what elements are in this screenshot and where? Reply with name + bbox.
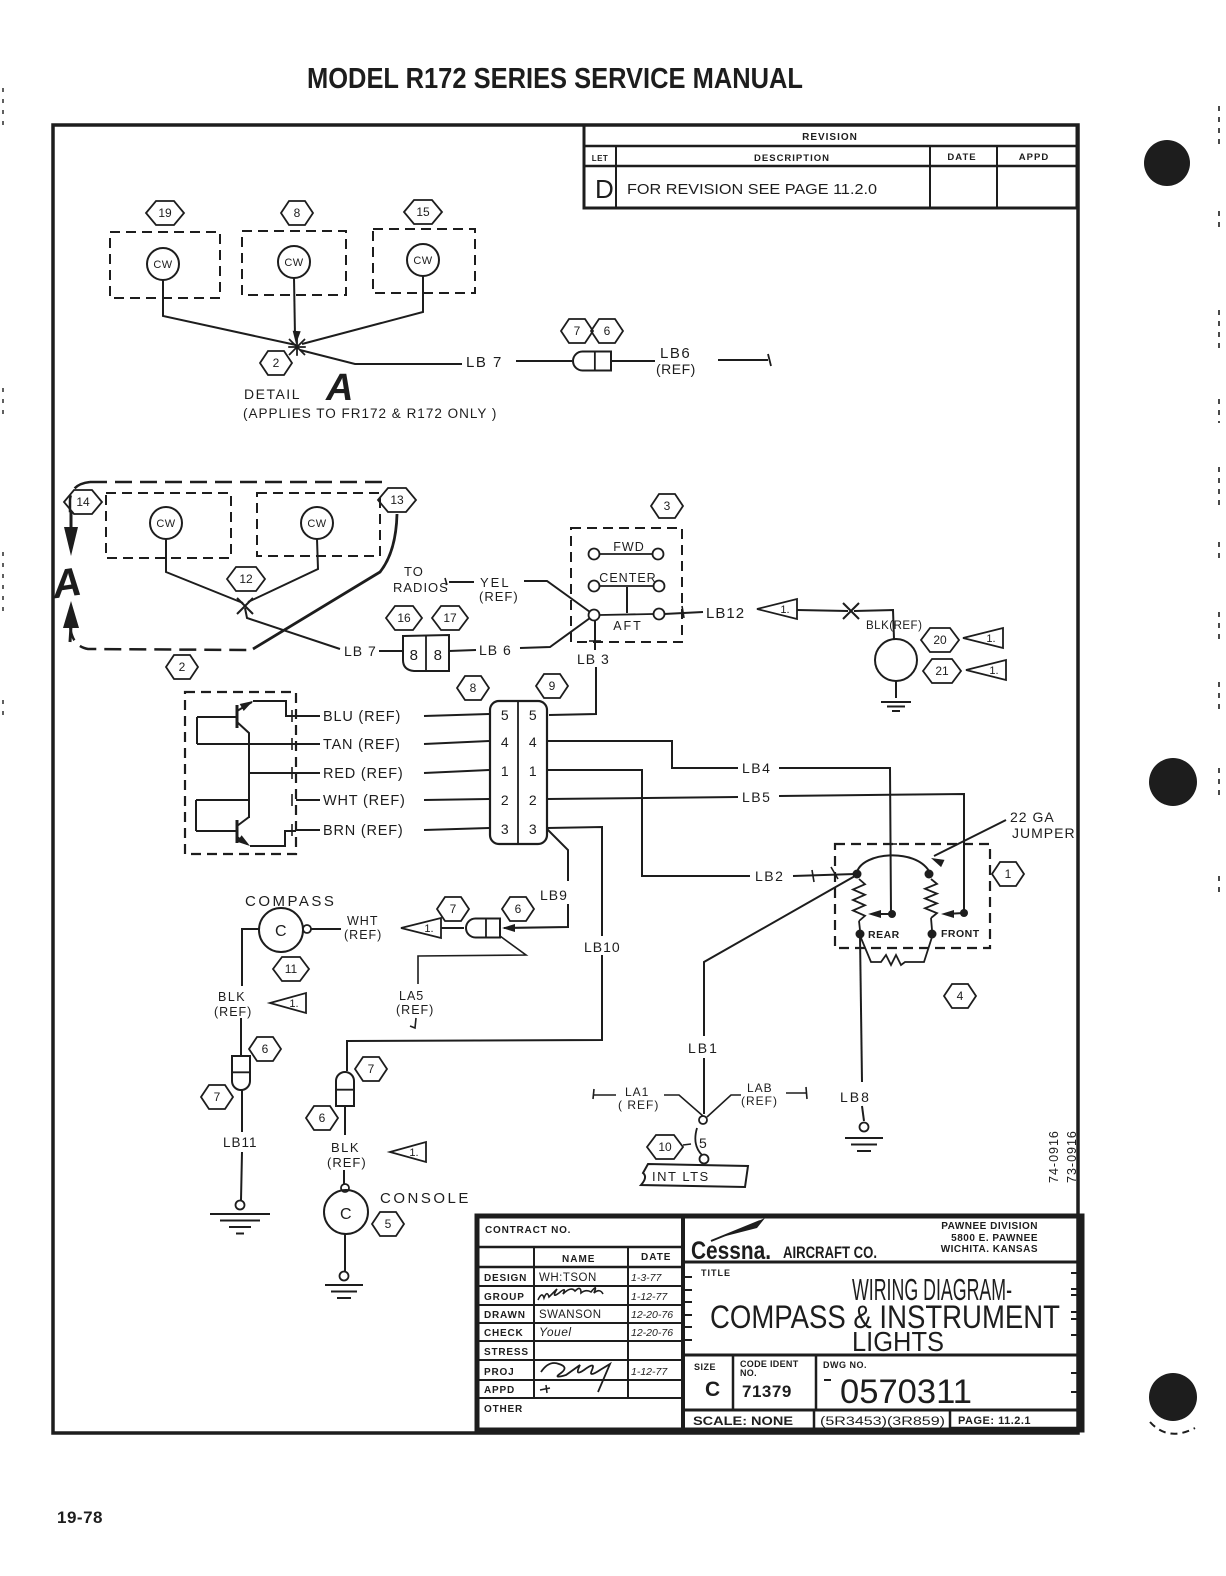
svg-text:17: 17 [443,611,457,625]
dimmer assembly box [185,692,296,854]
LA1 (REF) stub [593,1085,703,1116]
INT LTS banner [641,1164,748,1187]
wire console connector down [344,1105,346,1135]
svg-text:12-20-76: 12-20-76 [631,1327,673,1339]
svg-text:FWD: FWD [613,540,644,554]
drawing title [683,1268,1082,1357]
callout hex 1 [992,862,1024,886]
wire label BLK (REF) (compass) [214,990,252,1019]
svg-text:LB 7: LB 7 [466,354,503,371]
svg-text:5: 5 [385,1217,392,1231]
wire LB7 to connector (detail A) [516,360,572,362]
lamp CW2 (detail A) [278,246,310,278]
callout hex 10 [647,1135,683,1159]
svg-text:Youel: Youel [539,1325,572,1339]
wire splice to LB7 (detail A) [300,350,462,364]
callout hex 8 [457,676,489,700]
jumper arc [857,855,929,872]
svg-text:DATE: DATE [947,152,976,163]
svg-text:BLK: BLK [218,990,246,1004]
callout triangle 1 (compass BLK) [270,993,306,1013]
wire LA5 [396,936,526,1028]
svg-text:DATE: DATE [641,1252,671,1263]
svg-text:CW: CW [307,518,326,530]
svg-text:7: 7 [214,1090,221,1104]
compass lamp [259,908,311,952]
svg-text:TITLE: TITLE [701,1268,731,1278]
callout hex 5 [372,1212,404,1236]
svg-text:STRESS: STRESS [484,1347,529,1358]
flow arrow up (left edge) [63,601,79,642]
wire label YEL (REF) [479,575,519,604]
callout hex 6 [249,1037,281,1061]
revision block [584,125,1077,208]
svg-text:1.: 1. [409,1147,418,1159]
instrument lamp box 3 (detail A) [373,229,475,293]
svg-text:(REF): (REF) [214,1005,252,1019]
svg-text:WHT: WHT [347,914,378,928]
svg-text:74-0916: 74-0916 [1047,1130,1061,1183]
svg-text:(REF): (REF) [741,1094,778,1108]
svg-text:5: 5 [699,1135,707,1151]
callout hex 17 [432,606,468,630]
svg-text:7: 7 [368,1062,375,1076]
svg-text:LB9: LB9 [540,887,568,903]
ground lines (LB8) [845,1138,883,1151]
svg-text:LB12: LB12 [706,605,745,622]
svg-text:5: 5 [501,707,509,723]
svg-text:7: 7 [574,324,581,338]
svg-text:( REF): ( REF) [618,1098,659,1112]
wire BLU (REF) [292,709,489,725]
svg-text:DRAWN: DRAWN [484,1310,526,1321]
svg-text:3: 3 [501,821,509,837]
svg-text:2: 2 [501,792,509,808]
callout hex 7 [437,897,469,921]
svg-text:6: 6 [262,1042,269,1056]
flow arrow down (left edge) [64,512,78,556]
wire LB8 [840,936,871,1121]
svg-text:0570311: 0570311 [840,1373,972,1411]
svg-text:RADIOS: RADIOS [393,580,449,595]
in-line connector (compass ground) [232,1056,250,1090]
svg-text:CONTRACT NO.: CONTRACT NO. [485,1225,571,1236]
rear rheostat R [853,879,865,921]
selector switch box [571,528,682,642]
punch hole bottom [1149,1373,1197,1434]
svg-text:3: 3 [664,499,671,513]
svg-text:10: 10 [658,1140,672,1154]
wire splice to LB7 (detail 2) [245,608,340,649]
svg-text:WICHITA. KANSAS: WICHITA. KANSAS [941,1244,1038,1255]
callout triangle 1 (hex 20) [963,628,1003,648]
svg-text:2: 2 [179,660,186,674]
svg-text:LAB: LAB [747,1081,773,1095]
svg-text:20: 20 [933,633,947,647]
callout hex 8 [281,201,313,225]
svg-text:2: 2 [529,792,537,808]
svg-text:LIGHTS: LIGHTS [852,1326,944,1357]
svg-text:PAGE: 11.2.1: PAGE: 11.2.1 [958,1415,1031,1427]
fixed resistor between dimmers [861,937,932,965]
COMPASS label [245,893,336,910]
svg-text:GROUP: GROUP [484,1292,525,1303]
wire connector to LB6 (detail A) [612,360,655,362]
svg-text:2: 2 [273,356,280,370]
Q1 base loop from TAN [196,717,198,744]
svg-text:LET: LET [592,154,609,163]
appd mark [540,1385,550,1393]
wire WHT (REF) [292,793,489,809]
size code dwg row [683,1355,1082,1411]
svg-text:(REF): (REF) [327,1155,367,1170]
lamp CW4 (detail 2) [150,507,182,539]
transistor Q2 [196,817,296,846]
wire BRN (REF) [292,823,489,839]
wire LB6 to AFT terminal [520,618,590,648]
dimmer internal bus [248,744,250,818]
callout hex 20 [921,628,959,652]
switch CENTER contacts [589,571,665,592]
svg-text:REAR: REAR [868,929,900,941]
wire lamp1 to splice (detail A) [163,280,296,345]
svg-text:D: D [595,174,614,204]
svg-text:1: 1 [529,763,537,779]
pin 1 [501,763,537,779]
wire label BLK (REF) (console) [327,1140,367,1170]
lamp CW5 (detail 2) [301,507,333,539]
splice node (detail 2) [237,598,253,614]
splice block 8-8 [403,635,449,671]
drawing numbers sidebar [1047,1130,1079,1183]
svg-text:22 GA: 22 GA [1010,809,1055,825]
callout hex 6 [591,319,623,343]
wire lamp3 to splice (detail A) [302,276,423,344]
wire compass to WHT [311,928,341,930]
instrument lamp box 2 (detail A) [242,231,346,295]
svg-text:1.: 1. [986,633,995,645]
wire TO RADIOS to YEL [449,581,474,583]
left page edge marks [2,88,4,722]
callout hex 19 [146,201,184,225]
svg-text:LA1: LA1 [625,1085,649,1099]
svg-text:(REF): (REF) [479,589,519,604]
wire label LB12 [706,605,745,622]
REAR label [868,929,900,941]
pin 5 [501,707,537,723]
page heading [307,63,803,95]
instrument lamp box 4 (detail 2) [106,493,231,558]
wire label LB7 (detail A) [466,354,503,371]
svg-text:(5R3453)(3R859): (5R3453)(3R859) [820,1416,945,1428]
svg-text:LB5: LB5 [742,789,771,805]
svg-text:Cessna.: Cessna. [691,1237,771,1265]
RED tap [250,772,296,774]
svg-text:1.: 1. [989,665,998,677]
front wiper [941,909,968,918]
svg-text:(REF): (REF) [396,1003,434,1017]
svg-text:C: C [705,1378,721,1401]
svg-text:APPD: APPD [484,1385,515,1396]
svg-text:19: 19 [158,206,172,220]
callout hex 7 [355,1057,387,1081]
svg-text:A: A [325,367,353,409]
pin 4 [501,734,537,750]
svg-text:16: 16 [397,611,411,625]
svg-text:PROJ: PROJ [484,1367,514,1378]
name date header [477,1247,683,1398]
svg-text:CHECK: CHECK [484,1328,524,1339]
hex10 tie [683,1144,691,1145]
svg-text:1: 1 [501,763,509,779]
wire LB6 stub [718,354,771,366]
svg-text:19-78: 19-78 [57,1508,103,1527]
svg-text:LB10: LB10 [584,939,621,955]
proj signature [541,1363,610,1392]
svg-text:CONSOLE: CONSOLE [380,1190,471,1207]
svg-text:12-20-76: 12-20-76 [631,1309,673,1321]
ground lines (console) [325,1285,363,1298]
splice node (detail A) [288,338,306,356]
instrument lamp box 1 (detail A) [110,232,220,298]
wire label LB3 [577,651,610,667]
transistor Q1 [197,701,296,745]
svg-text:8: 8 [470,681,477,695]
callout hex 12 [227,567,265,591]
wire LB5 (pin 2 to front dimmer wiper) [547,789,964,913]
wire LB4 (pin 4 to rear dimmer wiper) [547,741,897,914]
svg-text:C: C [275,923,287,940]
wire RED (REF) [292,766,489,782]
cessna logo row [683,1218,1082,1265]
svg-text:8: 8 [294,206,301,220]
callout hex 11 [273,957,309,981]
nav lamp [875,639,917,681]
22GA jumper label [1010,809,1076,841]
Q2 base loop from WHT [195,800,197,831]
svg-text:5800 E. PAWNEE: 5800 E. PAWNEE [951,1233,1038,1244]
lamp CW1 (detail A) [147,248,179,280]
svg-text:DESIGN: DESIGN [484,1273,527,1284]
svg-text:CW: CW [153,259,172,271]
wire lamp to ground [895,681,897,698]
wire label LB6 (REF) [656,345,696,377]
in-line connector (compass WHT) [466,919,500,938]
TAN wire inside box [197,743,296,745]
svg-text:LB11: LB11 [223,1135,258,1150]
svg-text:LB 6: LB 6 [479,642,512,658]
svg-text:BLK: BLK [331,1140,360,1155]
callout hex 7 [201,1085,233,1109]
revision D entry [595,174,877,204]
svg-text:BRN (REF): BRN (REF) [323,823,404,839]
wire YEL to AFT terminal [524,581,590,612]
svg-text:(REF): (REF) [656,361,696,377]
FRONT label [941,928,980,940]
wire LB2 (pin 1 to rear dimmer) [547,770,855,884]
callout hex 16 [386,606,422,630]
svg-text:11: 11 [285,962,298,976]
svg-text:8: 8 [410,647,419,664]
svg-text:1.: 1. [424,923,433,935]
svg-text:4: 4 [529,734,537,750]
svg-text:CW: CW [156,518,175,530]
svg-text:SIZE: SIZE [694,1362,716,1372]
svg-text:LB 3: LB 3 [577,651,610,667]
callout hex 2 (detail A) [260,351,292,375]
node front bottom [928,918,937,939]
svg-text:1: 1 [1005,867,1012,881]
contract no cell [477,1225,683,1247]
punch hole middle [1149,758,1197,806]
svg-text:9: 9 [549,679,556,693]
ground (console) [340,1272,349,1281]
svg-text:3: 3 [529,821,537,837]
group signature [538,1288,603,1300]
wire LB10 (pin 3 to console) [347,827,621,1071]
svg-text:WH:TSON: WH:TSON [539,1272,597,1284]
callout hex 6 [306,1106,338,1130]
svg-text:LB6: LB6 [660,345,691,362]
svg-text:8: 8 [434,647,443,664]
wire lamp5 to splice (detail 2) [248,539,318,602]
wire label WHT (REF) (compass) [344,914,382,942]
in-line connector (console) [336,1072,354,1106]
splice node (LB12) [843,603,859,619]
wire console to ground [344,1234,346,1271]
wire lamp2 to splice (detail A) [293,278,301,344]
svg-text:6: 6 [604,324,611,338]
callout hex 3 [651,494,683,518]
in-line connector (detail A) [573,352,611,371]
svg-text:NAME: NAME [562,1254,595,1265]
svg-text:COMPASS: COMPASS [245,893,336,910]
svg-text:YEL: YEL [480,575,511,590]
rear wiper [868,910,896,918]
connector block pins [490,701,547,844]
wire TAN (REF) [292,737,489,753]
page number [57,1508,103,1527]
detail A note [243,406,497,421]
pin 3 [501,821,537,837]
scale row [693,1410,1080,1430]
wire AFT to LB12 [664,606,703,618]
callout hex 14 [64,490,102,514]
svg-text:INT LTS: INT LTS [652,1169,710,1184]
svg-text:21: 21 [935,664,949,678]
page edge marks [1218,106,1220,898]
svg-text:DESCRIPTION: DESCRIPTION [754,153,830,164]
wire to compass inline connector [240,1018,242,1055]
svg-text:OTHER: OTHER [484,1404,523,1415]
WHT crossing [196,799,248,801]
svg-text:FRONT: FRONT [941,928,980,940]
front rheostat R [925,879,937,918]
svg-text:REVISION: REVISION [802,132,858,143]
ground lines (compass) [210,1214,270,1234]
int lts connector [695,1116,708,1164]
svg-text:1.: 1. [780,604,789,616]
svg-text:LB4: LB4 [742,760,771,776]
svg-text:PAWNEE DIVISION: PAWNEE DIVISION [941,1221,1038,1232]
callout hex 9 [536,674,568,698]
svg-text:4: 4 [957,989,964,1003]
callout hex 21 [923,659,961,683]
wire label LB6 (detail 2) [479,642,512,658]
title block frame [477,1216,1082,1430]
wire LB11 [223,1090,258,1200]
svg-text:A: A [49,560,85,608]
punch hole top [1144,140,1190,186]
instrument lamp box 5 (detail 2) [257,493,380,556]
pin 2 [501,792,537,808]
svg-text:14: 14 [76,495,90,509]
CONSOLE label [380,1190,471,1207]
svg-text:SWANSON: SWANSON [539,1309,602,1321]
console lamp [324,1184,368,1234]
wire LB3 to pin 5 [549,667,596,715]
node rear top [853,870,862,879]
svg-text:12: 12 [239,572,253,586]
margin ticks [685,1273,1078,1392]
svg-text:71379: 71379 [742,1382,792,1401]
svg-text:(APPLIES TO FR172 & R172 ONL: (APPLIES TO FR172 & R172 ONLY ) [243,406,497,421]
svg-text:LB2: LB2 [755,868,784,884]
svg-text:1.: 1. [289,998,298,1010]
svg-text:LB1: LB1 [688,1040,719,1056]
wire block to LB6 (detail 2) [449,650,476,651]
svg-text:NO.: NO. [740,1368,757,1378]
svg-text:AFT: AFT [613,619,643,633]
detail 2 boundary curve from hex 13 [253,514,397,649]
svg-text:DWG NO.: DWG NO. [823,1360,867,1370]
wire LB1 [688,876,855,1114]
node front top [925,870,934,879]
wire compass down [242,929,259,986]
svg-text:15: 15 [416,205,430,219]
svg-text:5: 5 [529,707,537,723]
callout triangle 1 (hex 21) [966,660,1006,680]
svg-text:13: 13 [390,493,404,507]
switch center-aft link [626,587,628,613]
ground (LB8) [860,1123,869,1132]
svg-text:LB 7: LB 7 [344,643,377,659]
svg-text:MODEL R172 SERIES SERVICE MANU: MODEL R172 SERIES SERVICE MANUAL [307,63,803,95]
callout hex 2 (detail 2) [166,655,198,679]
TO RADIOS note [393,564,449,595]
svg-text:1-3-77: 1-3-77 [631,1272,663,1284]
wire LB12 to lamp [797,610,894,639]
wire lamp4 to splice (detail 2) [166,539,243,603]
svg-text:6: 6 [515,902,522,916]
callout triangle 1 (LB12) [757,599,797,619]
svg-text:6: 6 [319,1111,326,1125]
callout hex 13 [378,488,416,512]
svg-text:7: 7 [450,902,457,916]
dimmer rheostat box [835,844,990,948]
bold A marker (left edge) [49,560,85,608]
callout hex 7 [561,319,593,343]
LAB (REF) stub [707,1081,807,1117]
svg-text:CW: CW [284,257,303,269]
svg-text:APPD: APPD [1019,152,1049,163]
approval rows [477,1272,683,1415]
svg-text:LB8: LB8 [840,1089,871,1105]
svg-text:TAN (REF): TAN (REF) [323,737,401,753]
pawnee division address [941,1221,1038,1255]
ground (nav lamp) [881,702,911,711]
svg-text:LA5: LA5 [399,989,424,1003]
